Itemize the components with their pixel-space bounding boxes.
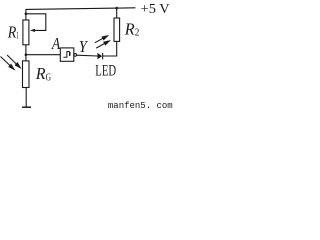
svg-text:1: 1 xyxy=(16,29,19,41)
svg-text:G: G xyxy=(46,73,52,84)
svg-text:R: R xyxy=(124,20,135,39)
svg-text:+5 V: +5 V xyxy=(141,2,170,17)
svg-text:R: R xyxy=(35,64,46,83)
svg-text:2: 2 xyxy=(135,27,140,39)
svg-text:manfen5. com: manfen5. com xyxy=(108,101,173,111)
svg-text:A: A xyxy=(51,34,61,53)
svg-text:LED: LED xyxy=(95,63,116,80)
svg-text:R: R xyxy=(7,22,16,41)
